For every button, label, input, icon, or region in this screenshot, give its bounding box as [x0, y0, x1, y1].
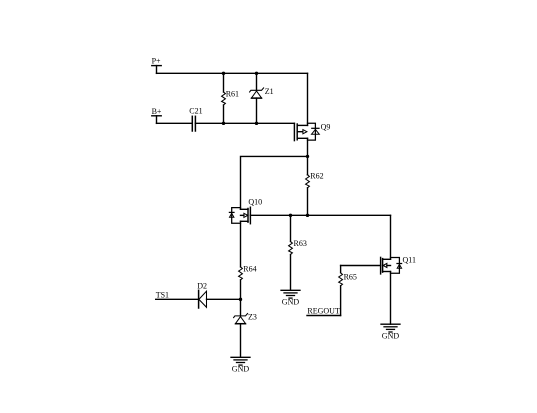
transistor Q11 [381, 256, 416, 274]
svg-text:R61: R61 [226, 89, 239, 98]
resistor R62 [306, 171, 324, 215]
svg-text:Q10: Q10 [248, 197, 262, 206]
wire rail to Q10 drain [241, 156, 308, 209]
junction B+/R61 [222, 122, 225, 125]
svg-text:R65: R65 [344, 272, 357, 281]
wire TS1 to D2 [156, 298, 199, 300]
svg-text:Z3: Z3 [248, 313, 257, 322]
wire D2 to node [207, 298, 241, 300]
junction P+/R61 [222, 72, 225, 75]
resistor R61 [222, 73, 239, 123]
wire Q11 source down [390, 272, 392, 325]
wire B+ to C21 [157, 122, 193, 124]
svg-text:R63: R63 [294, 239, 307, 248]
svg-text:GND: GND [282, 298, 300, 307]
junction source rail [306, 155, 309, 158]
wire REGOUT [307, 315, 341, 317]
junction P+/Z1 [255, 72, 258, 75]
wire P+ rail [157, 72, 308, 74]
wire Q10 gate rail [250, 214, 390, 216]
svg-text:Q11: Q11 [403, 256, 416, 265]
svg-text:R64: R64 [243, 264, 256, 273]
capacitor C21 [189, 106, 202, 131]
svg-text:REGOUT: REGOUT [307, 307, 340, 316]
resistor R65 [339, 266, 357, 316]
svg-text:GND: GND [382, 332, 400, 341]
ground GND1 [281, 290, 300, 306]
transistor Q10 [229, 197, 262, 223]
transistor Q9 [294, 122, 330, 140]
svg-text:R62: R62 [310, 171, 323, 180]
ground GND3 [381, 324, 400, 340]
zener Z1 [250, 73, 274, 123]
wire Q9 source down [307, 138, 309, 175]
resistor R64 [239, 221, 257, 299]
svg-text:Q9: Q9 [321, 122, 331, 131]
svg-text:B+: B+ [152, 107, 162, 116]
junction D2 node [239, 298, 242, 301]
svg-text:Z1: Z1 [265, 87, 274, 96]
wire Q9 drain to P+ [307, 73, 309, 125]
resistor R63 [289, 215, 307, 290]
zener Z3 [234, 299, 257, 357]
wire rail to Q11 drain [390, 215, 392, 259]
node P+ [152, 57, 162, 74]
node B+ [152, 107, 162, 124]
svg-text:P+: P+ [152, 57, 161, 66]
diode D2 [197, 281, 207, 308]
svg-text:C21: C21 [189, 106, 202, 115]
svg-text:GND: GND [232, 365, 250, 374]
junction R62 bottom [306, 214, 309, 217]
wire C21 to Q9 gate [195, 122, 294, 124]
wire Q11 gate to R65 [341, 265, 381, 267]
svg-text:TS1: TS1 [156, 291, 169, 300]
ground GND2 [231, 357, 250, 373]
junction R63 top [289, 214, 292, 217]
junction B+/Z1 [255, 122, 258, 125]
svg-text:D2: D2 [197, 281, 207, 290]
